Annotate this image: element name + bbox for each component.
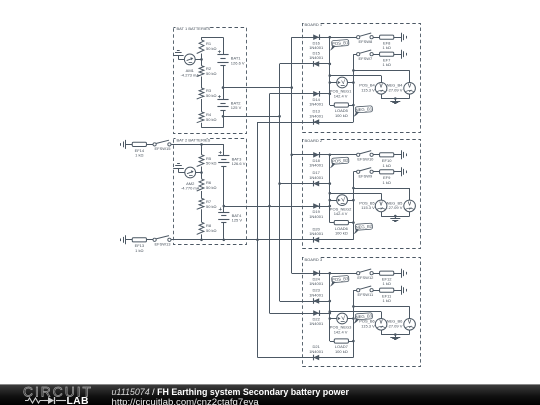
svg-text:BAT 2 BATTERIES: BAT 2 BATTERIES: [177, 137, 211, 142]
svg-text:1 kΩ: 1 kΩ: [382, 281, 390, 286]
svg-text:1N4001: 1N4001: [309, 292, 324, 297]
svg-text:1 kΩ: 1 kΩ: [135, 248, 143, 253]
svg-text:126.6 V: 126.6 V: [231, 60, 245, 65]
svg-text:BOARD 2: BOARD 2: [305, 138, 323, 143]
svg-text:EFSW8: EFSW8: [359, 39, 374, 44]
svg-text:1N4001: 1N4001: [309, 45, 324, 50]
svg-text:125 V: 125 V: [231, 105, 242, 110]
svg-text:100 kΩ: 100 kΩ: [335, 113, 348, 118]
svg-text:EFSW13: EFSW13: [154, 242, 171, 247]
svg-text:115.3 V: 115.3 V: [361, 88, 375, 93]
svg-text:125 V: 125 V: [232, 218, 243, 223]
svg-text:1 kΩ: 1 kΩ: [382, 180, 390, 185]
svg-text:50 kΩ: 50 kΩ: [206, 228, 217, 233]
svg-text:1N4001: 1N4001: [309, 163, 324, 168]
svg-text:50 kΩ: 50 kΩ: [206, 93, 217, 98]
svg-text:BOARD 3: BOARD 3: [305, 257, 323, 262]
svg-text:-4.273 mA: -4.273 mA: [181, 73, 200, 78]
svg-text:-27.09 V: -27.09 V: [387, 324, 402, 329]
svg-text:-27.09 V: -27.09 V: [387, 88, 402, 93]
svg-text:115.3 V: 115.3 V: [361, 205, 375, 210]
svg-text:1 kΩ: 1 kΩ: [135, 153, 143, 158]
svg-text:142.4 V: 142.4 V: [334, 94, 348, 99]
svg-text:50 kΩ: 50 kΩ: [206, 204, 217, 209]
svg-text:EFSW10: EFSW10: [357, 157, 374, 162]
svg-text:1N4001: 1N4001: [309, 214, 324, 219]
svg-text:50 kΩ: 50 kΩ: [206, 185, 217, 190]
svg-text:EFSW9: EFSW9: [359, 174, 374, 179]
svg-text:1 kΩ: 1 kΩ: [382, 298, 390, 303]
svg-text:1N4001: 1N4001: [309, 55, 324, 60]
svg-text:LAB: LAB: [67, 396, 89, 405]
svg-text:142.4 V: 142.4 V: [334, 211, 348, 216]
svg-text:1N4001: 1N4001: [309, 102, 324, 107]
svg-text:1N4001: 1N4001: [309, 175, 324, 180]
svg-text:BOARD 1: BOARD 1: [305, 22, 323, 27]
svg-text:EFSW12: EFSW12: [357, 275, 374, 280]
svg-text:BAT 1 BATTERIES: BAT 1 BATTERIES: [177, 26, 211, 31]
svg-text:50 kΩ: 50 kΩ: [206, 46, 217, 51]
svg-text:1 kΩ: 1 kΩ: [382, 45, 390, 50]
svg-text:115.3 V: 115.3 V: [361, 324, 375, 329]
svg-text:1N4001: 1N4001: [309, 113, 324, 118]
svg-text:126.6 V: 126.6 V: [232, 161, 246, 166]
svg-text:EFSW11: EFSW11: [358, 292, 374, 297]
svg-text:-4.770 mA: -4.770 mA: [181, 186, 200, 191]
svg-text:50 kΩ: 50 kΩ: [206, 117, 217, 122]
svg-text:1N4001: 1N4001: [309, 349, 324, 354]
svg-text:1 kΩ: 1 kΩ: [382, 163, 390, 168]
svg-text:EFSW7: EFSW7: [359, 56, 374, 61]
svg-text:100 kΩ: 100 kΩ: [335, 349, 348, 354]
svg-text:1N4001: 1N4001: [309, 281, 324, 286]
svg-text:EFSW15: EFSW15: [154, 146, 171, 151]
svg-text:1 kΩ: 1 kΩ: [382, 62, 390, 67]
svg-text:50 kΩ: 50 kΩ: [206, 71, 217, 76]
svg-text:100 kΩ: 100 kΩ: [335, 231, 348, 236]
svg-text:1N4001: 1N4001: [309, 321, 324, 326]
svg-text:142.4 V: 142.4 V: [334, 330, 348, 335]
svg-text:50 kΩ: 50 kΩ: [206, 161, 217, 166]
svg-text:-27.09 V: -27.09 V: [387, 205, 402, 210]
svg-text:1N4001: 1N4001: [309, 231, 324, 236]
